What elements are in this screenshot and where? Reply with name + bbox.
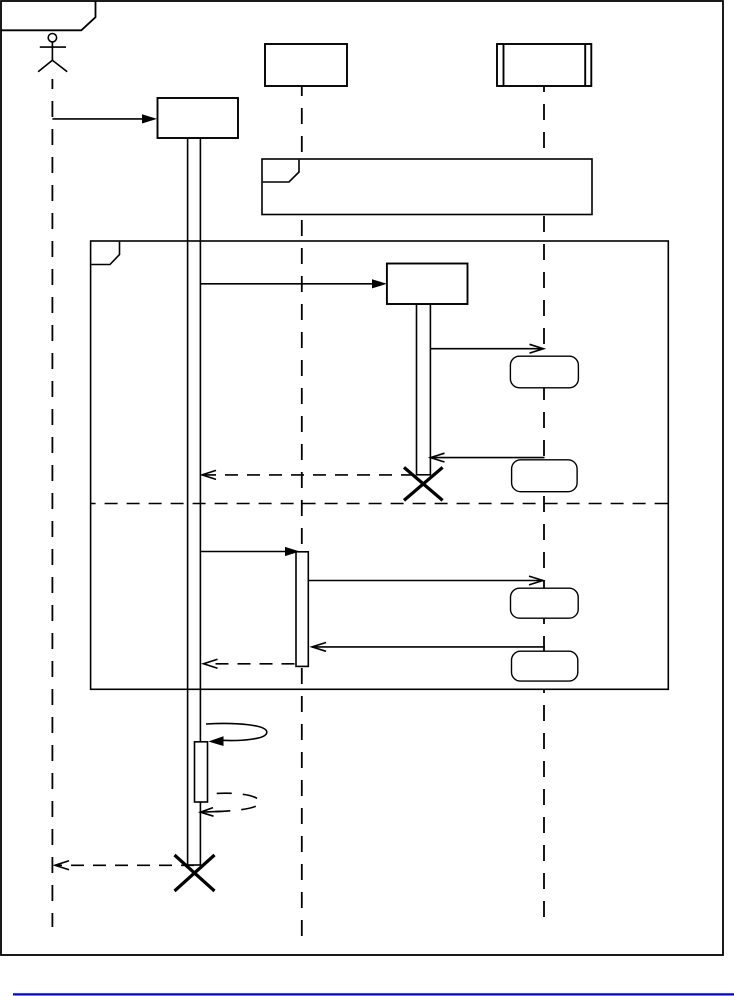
- message m9 dashed reply to A: [204, 659, 295, 668]
- state invariant RR4: [512, 651, 578, 681]
- activation bar main (object A): [188, 138, 201, 865]
- lifeline head box B: [265, 44, 347, 86]
- message m5 dashed reply to A: [202, 470, 414, 479]
- state invariant RR3: [511, 588, 579, 618]
- actor User: [38, 34, 67, 72]
- created object box A: [158, 98, 239, 138]
- lifeline C below fragment: [543, 689, 545, 917]
- message m4 reply to D: [431, 453, 545, 462]
- message m2 create D: [200, 279, 387, 288]
- ref interaction-use box: [262, 159, 592, 215]
- activation bar D: [417, 304, 431, 475]
- activation bar B: [296, 552, 308, 667]
- lifeline head box C (double sided): [497, 44, 591, 86]
- message m8 reply to B: [312, 643, 545, 652]
- message m6 call B: [200, 547, 299, 556]
- frame label tab: [1, 1, 96, 30]
- alt divider: [91, 503, 669, 505]
- self message dashed reply loop: [200, 793, 259, 816]
- message m7 async to C: [308, 576, 543, 585]
- created object box D: [387, 264, 468, 305]
- message m10 dashed reply to User: [55, 861, 194, 870]
- lifeline B: [301, 86, 303, 936]
- destruction X on D: [404, 467, 443, 500]
- lifeline C: [543, 86, 545, 689]
- self message loop: [206, 724, 267, 746]
- lifeline User: [51, 79, 53, 927]
- alt combined fragment frame: [91, 241, 669, 689]
- message m3 async to C: [430, 344, 543, 353]
- state invariant RR2: [512, 460, 577, 492]
- message m1 create A: [52, 114, 157, 123]
- state invariant RR1: [510, 356, 578, 388]
- nested activation bar on A: [195, 742, 208, 802]
- destruction X on A: [175, 855, 215, 891]
- footer rule: [13, 993, 734, 995]
